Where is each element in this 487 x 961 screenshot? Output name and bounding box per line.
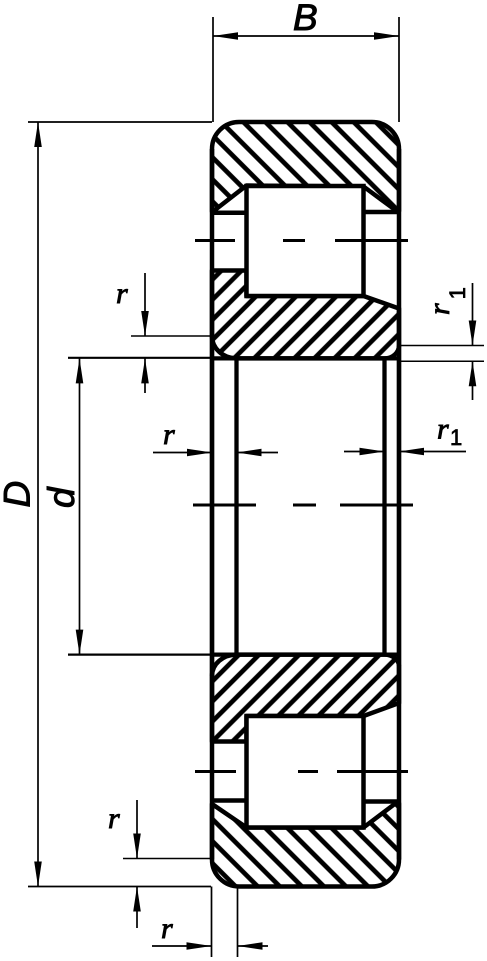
D dimension top arrowhead (34, 122, 42, 147)
r1 horizontal right arrowhead (360, 448, 385, 456)
r bottom horizontal dimension left tail (152, 945, 212, 947)
bearing main axis centerline (193, 504, 413, 507)
r1 fillet edge extension line right (401, 345, 484, 347)
inner ring bottom section (212, 655, 399, 742)
outer ring top right flange bottom face (364, 210, 400, 215)
r bottom horizontal right arrowhead (187, 942, 212, 950)
right face silhouette through bore (397, 346, 401, 667)
svg-text:1: 1 (450, 425, 462, 450)
r fillet edge extension line bottom left (123, 858, 211, 860)
bore bottom surface line (212, 652, 399, 656)
r dimension line top left upper part (144, 273, 146, 336)
B dimension right extension line (398, 17, 400, 122)
outer ring top left flange bottom face (212, 211, 247, 216)
r bottom extension line chamfer circle (237, 887, 239, 958)
r dimension top left up arrowhead (141, 358, 149, 383)
bore top surface line (212, 356, 399, 360)
r dimension bottom left down arrowhead (133, 834, 141, 859)
D dimension top extension line (28, 121, 212, 123)
r horizontal dimension right tail (237, 452, 279, 454)
B dimension left extension line (212, 17, 214, 122)
roller bottom axis centerline (195, 770, 408, 773)
right face line of rings (397, 149, 402, 860)
roller top axis centerline (195, 239, 408, 242)
r dimension top left down arrowhead (141, 311, 149, 336)
B dimension right arrowhead (374, 32, 399, 40)
r1 dimension line right upper part (472, 283, 474, 346)
r dimension bottom left up arrowhead (133, 887, 141, 912)
outer ring bottom left flange top face (212, 798, 247, 803)
r bottom horizontal dimension right tail (238, 945, 269, 947)
r horizontal right arrowhead (187, 449, 212, 457)
r bottom horizontal left arrowhead (238, 942, 263, 950)
r1 dimension line right lower part (472, 361, 474, 400)
svg-text:r: r (108, 802, 120, 835)
outer ring top section (212, 122, 399, 212)
d dimension line (79, 358, 81, 654)
svg-text:r: r (163, 418, 175, 451)
r1 horizontal dimension left tail (344, 451, 385, 453)
B dimension left arrowhead (213, 32, 238, 40)
left face silhouette through bore (210, 336, 214, 676)
B dimension line (213, 35, 399, 37)
D dimension bottom arrowhead (34, 862, 42, 887)
inner ring top section (212, 271, 399, 359)
r horizontal dimension left tail (153, 452, 212, 454)
r fillet edge extension line top left (131, 335, 212, 337)
svg-text:r: r (161, 912, 173, 945)
r1 dimension right up arrowhead (469, 361, 477, 386)
r bottom extension line on left face (211, 887, 213, 958)
r horizontal left arrowhead (237, 449, 262, 457)
svg-text:D: D (0, 481, 38, 508)
r1 bore extension line right (401, 360, 484, 362)
left face line of rings (210, 149, 215, 860)
left bore chamfer circle (234, 358, 238, 654)
svg-text:B: B (293, 0, 318, 38)
roller top (247, 186, 364, 296)
svg-text:r: r (437, 413, 449, 446)
svg-text:r: r (116, 277, 128, 310)
right bore fillet circle (382, 358, 386, 654)
svg-text:d: d (41, 486, 82, 508)
outer ring bottom right flange top face (364, 799, 400, 804)
d dimension bottom arrowhead (76, 630, 84, 655)
r dimension line bottom left upper part (136, 800, 138, 859)
D dimension bottom extension line (28, 886, 211, 888)
r dimension line bottom left lower part (136, 887, 138, 929)
roller bottom (247, 716, 364, 828)
D dimension line (37, 122, 39, 887)
d dimension top extension line (68, 357, 212, 359)
r dimension line top left lower part (144, 358, 146, 393)
outer ring bottom section (212, 803, 399, 887)
d dimension top arrowhead (76, 358, 84, 383)
r1 horizontal left arrowhead (399, 448, 424, 456)
d dimension bottom extension line (68, 653, 212, 655)
r1 horizontal dimension right tail (399, 451, 466, 453)
r1 dimension right down arrowhead (469, 321, 477, 346)
